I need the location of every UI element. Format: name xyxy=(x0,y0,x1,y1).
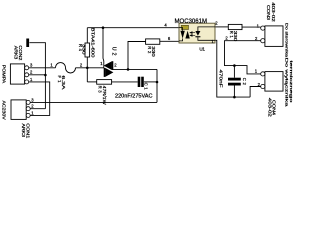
wire CON1 pin2 xyxy=(28,108,45,110)
capacitor C2 plates xyxy=(228,78,241,81)
svg-text:POMPA: POMPA xyxy=(2,65,7,84)
U1 internal wiring xyxy=(179,28,183,31)
wire MOC pin2 to R1 xyxy=(215,26,228,28)
svg-text:AC230V: AC230V xyxy=(2,101,7,120)
svg-text:470nF: 470nF xyxy=(219,70,224,89)
wire snubber drop xyxy=(86,68,88,82)
wire triac gate drop from rail xyxy=(102,28,105,68)
svg-text:CON3: CON3 xyxy=(266,5,271,21)
wire C2 top lead xyxy=(233,66,235,78)
fuse F1 xyxy=(56,63,76,73)
wire C1 to node xyxy=(144,81,157,83)
wire CON3 pin2 net xyxy=(225,41,261,74)
resistor R2 xyxy=(146,39,160,44)
capacitor C1 plates xyxy=(138,77,141,87)
U1 LED xyxy=(195,31,200,37)
pin numerals POMPA xyxy=(30,63,33,82)
triac U2 BTA41-600 xyxy=(104,61,114,77)
pin numerals fuse xyxy=(50,62,83,67)
svg-text:403-02: 403-02 xyxy=(271,2,276,22)
svg-text:47R/1W: 47R/1W xyxy=(102,86,107,105)
wire C2 bottom lead xyxy=(233,86,235,98)
svg-text:C1: C1 xyxy=(144,83,149,91)
connector POMPA body xyxy=(10,64,24,84)
svg-text:Do sterownika: Do sterownika xyxy=(285,23,290,58)
POMPA pin circles xyxy=(25,66,29,84)
connector CON3 body xyxy=(265,26,283,47)
resistor R4 xyxy=(85,43,90,57)
wire MOC pin1 down xyxy=(215,40,250,97)
svg-text:CON4: CON4 xyxy=(272,100,277,116)
wire R1 to CON3 pin1 xyxy=(242,26,261,28)
wire R2 to MOC pin6 xyxy=(160,40,179,42)
pin numerals MOC xyxy=(164,20,218,44)
wire to CON4 pin2 xyxy=(250,87,261,98)
pin numerals triac xyxy=(100,61,117,68)
svg-text:ARK3: ARK3 xyxy=(14,46,19,60)
resistor R3 xyxy=(97,80,112,85)
wire vertical x157 xyxy=(156,69,158,102)
pin numerals CON1 xyxy=(31,97,34,115)
junction dots xyxy=(44,26,236,98)
CON4 pin circles xyxy=(261,72,265,89)
wire PE run xyxy=(27,82,50,116)
wire R3 to C1 xyxy=(112,81,138,83)
CON3 pin circles xyxy=(261,26,265,43)
svg-text:330: 330 xyxy=(151,46,156,57)
pin numerals CON4 xyxy=(255,69,261,88)
wire bottom rail xyxy=(28,101,157,103)
pin numerals CON3 xyxy=(225,24,259,42)
svg-text:termicznego: termicznego xyxy=(289,61,294,104)
svg-text:U1: U1 xyxy=(199,46,205,51)
svg-text:330: 330 xyxy=(233,31,238,42)
connector CON1 body xyxy=(11,100,26,120)
U1 LED arrows xyxy=(190,32,195,37)
svg-text:BTA41-600: BTA41-600 xyxy=(91,28,96,59)
svg-text:330: 330 xyxy=(81,44,86,55)
resistor R1 xyxy=(228,24,242,29)
U1 zero-cross block xyxy=(181,25,188,29)
U1 internal triac xyxy=(180,31,189,39)
wire top rail MOC pin4 to gate xyxy=(87,27,179,29)
svg-text:6.3A: 6.3A xyxy=(61,76,66,90)
wire POMPA pin3 to fuse xyxy=(27,67,56,69)
svg-text:Do wyłącznika: Do wyłącznika xyxy=(284,58,289,108)
wire snubber to R3 xyxy=(87,81,96,83)
CON1 pin circles xyxy=(26,100,30,117)
wire R2 gate drop xyxy=(128,42,146,70)
wire neutral POMPA pin2 xyxy=(27,74,46,76)
svg-text:CON1: CON1 xyxy=(25,123,30,139)
optocoupler U1 MOC3061M body xyxy=(179,23,215,43)
svg-text:MOC3061M: MOC3061M xyxy=(175,18,208,25)
connector CON2 terminal bar xyxy=(26,39,29,48)
svg-text:CON2: CON2 xyxy=(18,45,23,61)
wire neutral vertical xyxy=(29,43,45,109)
wire fuse to triac MT1 xyxy=(76,67,104,69)
wire R4 bottom lead xyxy=(86,57,88,68)
svg-text:C2: C2 xyxy=(242,78,247,86)
wire triac MT2 to corner xyxy=(113,68,157,70)
wire R4 top lead xyxy=(86,28,88,43)
connector CON4 body xyxy=(265,72,283,92)
svg-text:220nF/275VAC: 220nF/275VAC xyxy=(115,94,153,100)
